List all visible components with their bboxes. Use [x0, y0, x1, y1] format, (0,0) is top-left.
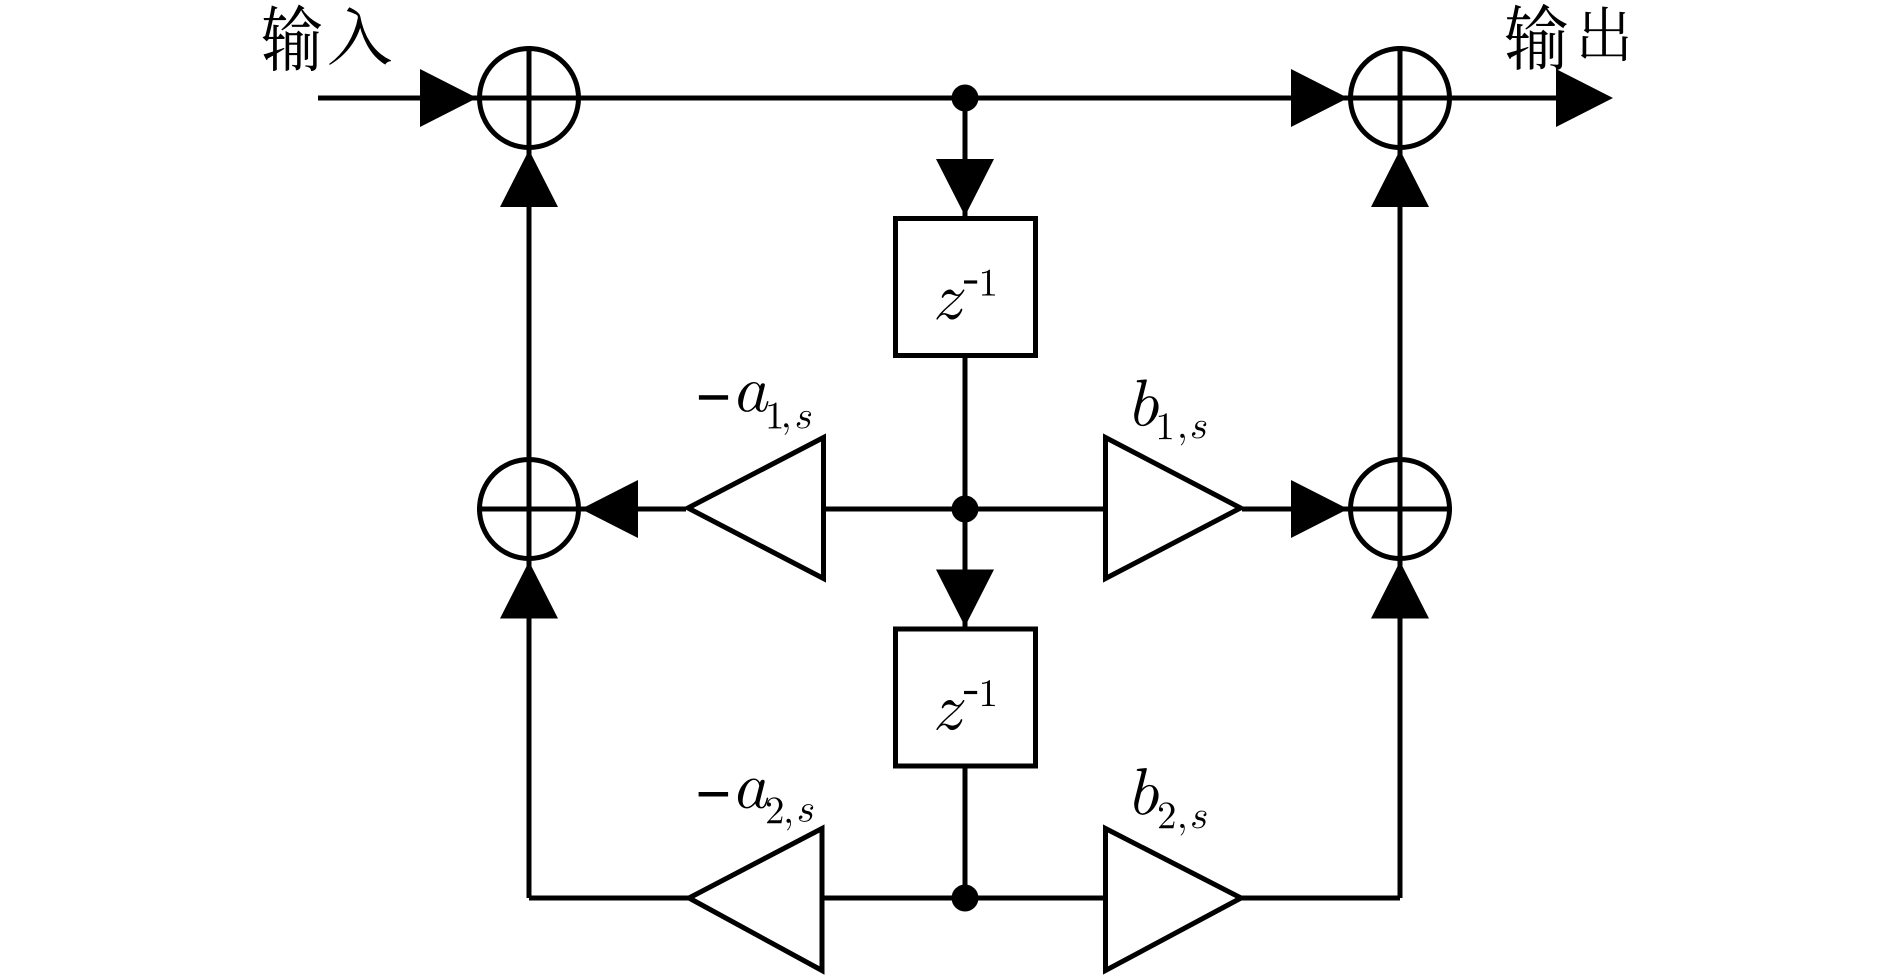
arrowhead: input into adder U1 — [420, 69, 477, 127]
gain amplifier G1 (-a1,s) pointing left — [688, 438, 824, 579]
arrowhead: top feed-forward line into adder U2 — [1291, 69, 1348, 127]
wire: right feed-forward vertical column — [1398, 150, 1403, 898]
value label: z^-1 inside delay Z1 — [936, 270, 994, 320]
wire: bottom line node N3 through gains G3,G4 — [529, 896, 1400, 901]
arrowhead: node N2 into delay Z2 — [936, 570, 994, 627]
arrowhead: gain G2 into adder U4 — [1291, 480, 1348, 538]
gain amplifier G4 (b2,s) pointing right — [1106, 829, 1242, 971]
arrowhead: gain G1 into adder U3 — [581, 480, 638, 538]
wire: output segment from adder U2 — [1452, 96, 1558, 101]
wire: gain G2 output to adder U4 — [1242, 507, 1352, 512]
adder U4 (right middle summing junction, circle-plus) — [1348, 457, 1452, 561]
arrowhead: bottom feed-forward into adder U4 — [1371, 562, 1429, 619]
delay element Z2 (z^-1) — [896, 629, 1036, 766]
arrowhead: node N1 into delay Z1 — [936, 159, 994, 216]
arrowhead: right feed-forward into adder U2 — [1371, 150, 1429, 207]
wire: top feed-forward line U1 to U2 through node N1 — [477, 96, 1352, 101]
adder U2 (output summing junction, circle-plus) — [1348, 46, 1452, 150]
wire: center vertical through delays z1,z2 — [963, 98, 968, 898]
delay element Z1 (z^-1) — [896, 219, 1036, 356]
wire: node N2 to gain G2 input — [965, 507, 1109, 512]
value label: b1,s for gain G2 — [1134, 379, 1206, 445]
text label: 输入 (input) first char 输 — [263, 5, 322, 72]
wire: left feedback vertical column — [527, 150, 532, 898]
arrowhead: output — [1556, 69, 1613, 127]
text label: 输出 (output) second char 出 — [1581, 6, 1628, 61]
wire: gain G1 output to adder U3 — [581, 507, 686, 512]
node N2 junction dot — [952, 496, 979, 523]
adder U3 (left middle summing junction, circle-plus) — [477, 457, 581, 561]
value label: b2,s for gain G4 — [1134, 768, 1206, 835]
gain amplifier G3 (-a2,s) pointing left — [689, 829, 822, 971]
text label: 输入 (input) second char 入 — [329, 7, 391, 65]
wire: node N2 to gain G1 input — [820, 507, 965, 512]
node N1 junction dot — [952, 85, 979, 112]
value label: -a1,s for gain G1 — [699, 382, 811, 435]
arrowhead: bottom feedback into adder U3 — [500, 562, 558, 619]
gain amplifier G2 (b1,s) pointing right — [1106, 438, 1241, 579]
node N3 junction dot — [952, 885, 979, 912]
text label: 输出 (output) first char 输 — [1506, 4, 1567, 70]
wire: input segment into adder U1 — [318, 96, 480, 101]
value label: -a2,s for gain G3 — [699, 778, 814, 830]
value label: z^-1 inside delay Z2 — [936, 680, 994, 730]
arrowhead: left feedback into adder U1 — [500, 150, 558, 207]
adder U1 (input summing junction, circle-plus) — [477, 46, 581, 150]
